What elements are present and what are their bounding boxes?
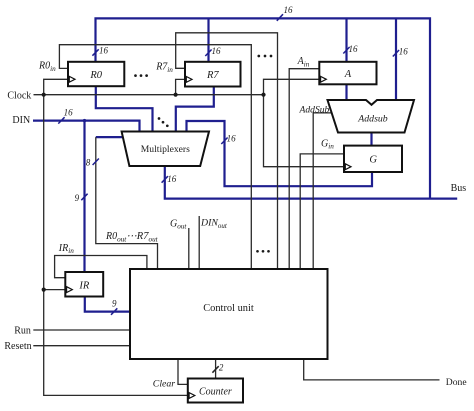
svg-text:16: 16 [64,107,74,117]
svg-text:R7: R7 [206,70,219,81]
svg-text:Clear: Clear [153,378,176,389]
svg-text:Run: Run [14,326,31,337]
svg-text:Clock: Clock [7,90,31,101]
svg-text:16: 16 [167,174,177,184]
svg-text:A: A [344,69,352,80]
svg-text:16: 16 [399,46,409,56]
svg-text:16: 16 [227,133,237,143]
svg-text:IR: IR [78,281,89,292]
svg-text:16: 16 [99,46,109,56]
svg-text:16: 16 [284,5,294,15]
svg-text:DIN: DIN [12,115,30,126]
svg-text:9: 9 [112,298,117,308]
svg-text:Control unit: Control unit [203,303,254,314]
svg-text:Counter: Counter [199,386,232,397]
svg-text:Done: Done [446,377,467,388]
svg-text:Bus: Bus [451,183,467,194]
svg-text:8: 8 [86,158,91,168]
svg-text:Resetn: Resetn [4,341,31,352]
svg-text:G: G [369,155,377,166]
svg-text:9: 9 [75,193,80,203]
svg-text:R0: R0 [89,70,102,81]
svg-text:16: 16 [349,44,359,54]
svg-text:Addsub: Addsub [357,113,387,124]
svg-text:Multiplexers: Multiplexers [141,144,190,155]
svg-text:16: 16 [212,46,222,56]
svg-text:AddSub: AddSub [299,104,330,115]
svg-text:2: 2 [219,362,224,372]
